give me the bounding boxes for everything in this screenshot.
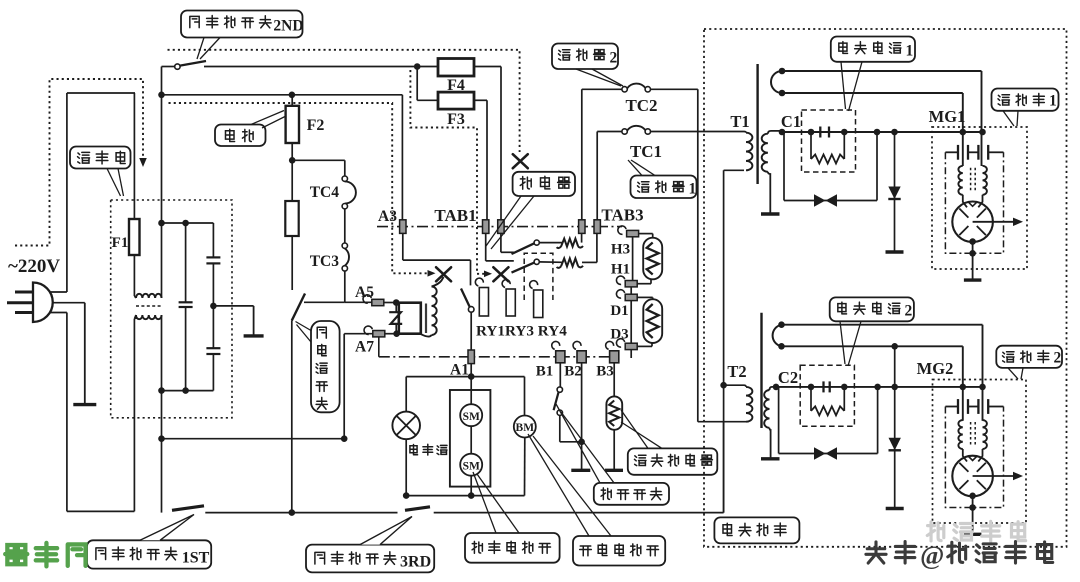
wire motor loop bottom (406, 495, 524, 497)
connector A1 (468, 350, 474, 364)
relay contact RY3 (500, 233, 502, 252)
label HV capacitor 1 (高压电容1) (831, 37, 915, 62)
label relay (继电器) (513, 172, 575, 196)
label door interlock switch 2ND (门联动开关2ND) (181, 11, 303, 38)
label thermostat 2 (温控器2) (552, 44, 618, 70)
flexible lead H1 row (557, 258, 583, 267)
connector B1 (556, 351, 565, 363)
capacitor CX1 (185, 223, 187, 302)
connector RY1 (479, 288, 488, 317)
svg-text:C2: C2 (778, 368, 798, 387)
svg-text:F3: F3 (447, 111, 465, 128)
svg-text:C1: C1 (781, 112, 801, 131)
label tray motor (托盘电动机) (573, 536, 665, 566)
label thermostat 1 (温控器1) (631, 176, 697, 199)
label stop switch (停机开关) (594, 483, 669, 505)
switch S2 door interlock 2ND (162, 66, 175, 68)
ground plug earth (84, 303, 86, 405)
switch S1 door interlock 1ST (172, 506, 204, 511)
lamp EL oven light (405, 377, 407, 412)
connector RY3 (506, 289, 515, 316)
wire plug neutral to filter board (50, 312, 67, 314)
svg-text:2: 2 (610, 50, 618, 67)
high-voltage assembly enclosure (704, 29, 1067, 547)
contact actuator mark X1 (436, 267, 451, 281)
svg-text:B3: B3 (596, 364, 614, 380)
svg-text:2ND: 2ND (273, 18, 303, 35)
svg-text:TC1: TC1 (630, 142, 662, 161)
label HV capacitor 2 (高压电容2) (830, 297, 914, 321)
magnetron MG1 internals (945, 151, 958, 153)
svg-text:MG2: MG2 (917, 359, 954, 378)
wire A1-B dash-dot row (379, 356, 618, 358)
contact actuator mark X2 (493, 267, 508, 281)
ground B2 (571, 469, 590, 472)
svg-text:A3: A3 (378, 208, 397, 225)
connector TAB3-a (579, 220, 585, 234)
connector RY4 (534, 290, 543, 318)
connector TAB1-b (498, 220, 504, 234)
wire neutral bus right (434, 512, 724, 514)
svg-text:F1: F1 (112, 235, 129, 251)
mechanical linkage dotted line to relay contact (168, 50, 520, 152)
thermostat TC3 (342, 243, 347, 248)
dark watermark text (866, 542, 915, 563)
connector D1 (625, 294, 637, 300)
switch S3 door interlock 3RD (405, 507, 430, 511)
svg-text:TC2: TC2 (625, 96, 657, 115)
wire A7 return (343, 334, 345, 439)
capacitor CY1 (212, 223, 214, 257)
flexible lead H3 row (557, 239, 583, 248)
T1 filament winding and leads (771, 71, 782, 93)
svg-text:1: 1 (1049, 93, 1057, 110)
motor SM1 (460, 404, 482, 426)
capacitor CY2 (206, 347, 220, 349)
svg-text:MG1: MG1 (929, 107, 966, 126)
AC plug P1 (33, 283, 53, 323)
wire TC2 to T2 primary (697, 89, 699, 421)
svg-text:BM: BM (516, 422, 535, 434)
svg-text:TAB1: TAB1 (434, 206, 476, 225)
magnetron MG2 internals (945, 406, 958, 408)
relay contact RY1 (A3 to A1) (402, 233, 404, 260)
connector A5 (372, 299, 384, 305)
ground B3 (605, 469, 623, 472)
motor BM tray (524, 377, 526, 416)
svg-text:T1: T1 (730, 112, 749, 131)
label HV assembly (高压组件) (714, 517, 799, 543)
control transformer T3 (425, 304, 427, 334)
svg-text:A5: A5 (355, 284, 374, 301)
dashed outline RY4 contact group (524, 253, 553, 300)
svg-text:H3: H3 (611, 242, 630, 258)
label door interlock 1ST (门联动开关1ST) (87, 540, 211, 568)
svg-text:B2: B2 (564, 364, 582, 380)
svg-text:T2: T2 (727, 362, 746, 381)
branding green text (5, 543, 85, 567)
svg-text:1ST: 1ST (182, 550, 210, 567)
label magnetron 2 (磁控煦2) (996, 346, 1062, 368)
connector A3 (400, 220, 406, 234)
connector B2 (577, 351, 586, 363)
connector D3 (625, 343, 637, 349)
wire live branch to node A3 (162, 94, 403, 96)
common-mode choke L1 (136, 294, 162, 298)
light watermark (927, 521, 1025, 541)
wire neutral bus (205, 512, 397, 514)
fuse F3 (416, 67, 418, 101)
mechanical linkage dotted line L1 (169, 103, 430, 273)
heater D (D1-D3) (637, 296, 653, 298)
ground diode2 (886, 507, 904, 510)
connector H3 (627, 230, 639, 236)
diode D-HV2 (894, 346, 896, 508)
diode D-HV1 (894, 132, 896, 252)
ground diode1 (886, 250, 904, 253)
thermostat TC4 (342, 176, 347, 181)
svg-text:D1: D1 (610, 303, 628, 319)
label oven lamp (照明灯) (410, 444, 447, 455)
svg-text:TC3: TC3 (310, 253, 340, 270)
wire B2 to ground (581, 363, 583, 471)
wire A7 to row2 (378, 337, 380, 357)
T2 filament winding and leads (773, 325, 782, 347)
svg-text:A7: A7 (355, 339, 374, 356)
svg-text:RY1RY3 RY4: RY1RY3 RY4 (476, 323, 567, 340)
svg-text:SM: SM (463, 411, 480, 423)
wire to filter ground (210, 303, 217, 310)
label door interlock 3RD (门联动开关3RD) (306, 545, 434, 573)
mechanical linkage dotted line L2 (410, 70, 486, 274)
svg-text:H1: H1 (611, 262, 630, 278)
wire filter top rail (162, 222, 214, 224)
svg-text:@: @ (920, 541, 944, 570)
temperature sensor RT1 (613, 363, 615, 397)
svg-text:SM: SM (463, 460, 480, 472)
label door detection switch (门检测开关) (311, 321, 340, 412)
label stirrer motor (搅拌电动机) (465, 533, 560, 563)
label temperature sensor (温度传感器) (628, 448, 718, 474)
heater H (H3-H1) (639, 233, 653, 235)
wire filter bottom rail (162, 390, 214, 392)
label magnetron 1 (磁控煦1) (992, 89, 1059, 111)
wire plug live to filter board (50, 291, 67, 293)
svg-text:1: 1 (905, 43, 913, 60)
relay contact RY4 (485, 233, 487, 261)
svg-text:TC4: TC4 (310, 184, 340, 201)
switch S5 stop switch (559, 363, 561, 387)
svg-text:TAB3: TAB3 (601, 206, 643, 225)
connector TAB3-b (594, 220, 600, 234)
svg-text:B1: B1 (536, 364, 554, 380)
svg-text:F2: F2 (307, 117, 325, 134)
wire TC2 branch (581, 89, 583, 220)
svg-text:~220V: ~220V (8, 256, 60, 277)
connector B3 (610, 351, 619, 363)
fuse F1 (133, 93, 135, 219)
door mechanical linkage dotted path left (15, 79, 143, 246)
connector TAB1-a (483, 220, 489, 234)
svg-text:1: 1 (689, 181, 697, 198)
thermostat TC2 (622, 87, 627, 92)
connector H1 (625, 281, 637, 287)
relay coil K1 (399, 303, 421, 334)
svg-text:3RD: 3RD (400, 554, 431, 571)
spark gap G2 (778, 387, 780, 454)
spark gap G1 (783, 132, 785, 201)
filter board enclosure (111, 200, 232, 418)
resistor R1 dropper (285, 201, 298, 236)
wire plug earth (52, 302, 85, 304)
wire main live column (161, 67, 163, 224)
switch S4 door detection (304, 301, 345, 303)
fuse F2 (286, 106, 299, 143)
connector A7 (373, 331, 385, 337)
wire motor loop top (406, 376, 524, 378)
contact actuator mark X3 (513, 154, 528, 168)
svg-text:2: 2 (1054, 350, 1062, 367)
svg-text:D3: D3 (610, 327, 628, 343)
fuse F4 (417, 66, 438, 68)
motor SM2 (460, 454, 482, 476)
stirrer motor box (450, 390, 491, 487)
label fuse body (熔体) (215, 125, 266, 147)
thermostat TC1 (597, 131, 622, 133)
label filter-board (滤波板) (70, 147, 131, 169)
wire TAB1 dash-dot row (377, 226, 622, 228)
svg-text:2: 2 (904, 303, 912, 320)
ground filter (253, 306, 255, 336)
